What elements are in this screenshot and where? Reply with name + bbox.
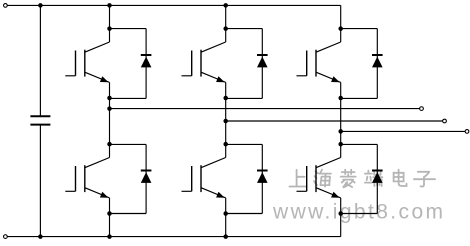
terminal: DC- [4, 235, 8, 239]
capacitor C1 [30, 116, 50, 124]
watermark CJK char 5 (dian) [394, 170, 407, 186]
diode D2 [110, 144, 152, 213]
wire: phase U output [110, 108, 420, 110]
terminal: phase V [443, 119, 447, 123]
svg-text:www.igbt8.com: www.igbt8.com [272, 201, 445, 224]
node: Q1 collector / D top [107, 26, 112, 31]
watermark CJK char 3 (ling) [341, 170, 356, 188]
node: Q4 emitter / D bottom [223, 211, 228, 216]
wire: leg 3 midpoint vertical [340, 82, 342, 157]
node: phase V tap [223, 119, 228, 124]
node: Q4 collector / D top [223, 142, 228, 147]
wire: phase W output [341, 130, 465, 132]
node: DC- at leg 2 [223, 234, 228, 239]
terminal: DC+ [4, 4, 8, 8]
node: phase W tap [338, 129, 343, 134]
IGBT Q5 [297, 42, 341, 82]
node: Q2 collector / D top [107, 142, 112, 147]
node: Q3 collector / D top [223, 26, 228, 31]
node: DC+ at leg 1 [107, 3, 112, 8]
watermark CJK char 1 (shang) [289, 170, 306, 187]
terminal: phase U [420, 107, 424, 111]
terminal: phase W [465, 130, 469, 134]
node: Q1 emitter / D bottom [107, 96, 112, 101]
node: Q2 emitter / D bottom [107, 211, 112, 216]
node: Q5 emitter / D bottom [338, 96, 343, 101]
wire: DC- bottom bus [7, 236, 341, 238]
diode D3 [226, 29, 268, 99]
wire: leg 3 collector drop from DC+ [340, 5, 342, 42]
node: Q6 emitter / D bottom [338, 211, 343, 216]
node: DC- at leg 1 [107, 234, 112, 239]
node: Q3 emitter / D bottom [223, 96, 228, 101]
diode D4 [226, 144, 268, 213]
node: DC+ at capacitor [38, 3, 43, 8]
diode D6 [341, 144, 383, 213]
watermark CJK char 4 (duan) [365, 170, 383, 187]
wire: capacitor branch lower [39, 125, 41, 237]
watermark CJK char 2 (hai) [314, 170, 331, 187]
wire: DC+ top bus [7, 4, 341, 6]
diode D5 [341, 29, 383, 99]
node: Q5 collector / D top [338, 26, 343, 31]
node: phase U tap [107, 106, 112, 111]
wire: capacitor branch upper [39, 5, 41, 116]
node: DC- at capacitor [38, 234, 43, 239]
watermark CJK char 6 (zi) [414, 172, 435, 187]
wire: leg 3 emitter drop to DC- [340, 198, 342, 237]
wire: leg 1 emitter drop to DC- [109, 198, 111, 237]
wire: leg 1 midpoint vertical [109, 82, 111, 157]
IGBT Q2 [65, 158, 109, 198]
IGBT Q6 [297, 158, 341, 198]
wire: leg 2 midpoint vertical [225, 82, 227, 157]
wire: leg 2 collector drop from DC+ [225, 5, 227, 42]
node: Q6 collector / D top [338, 142, 343, 147]
diode D1 [110, 29, 152, 99]
IGBT Q3 [182, 42, 226, 82]
wire: leg 2 emitter drop to DC- [225, 198, 227, 237]
node: DC+ at leg 2 [223, 3, 228, 8]
IGBT Q1 [65, 42, 109, 82]
wire: leg 1 collector drop from DC+ [109, 5, 111, 42]
wire: phase V output [226, 120, 443, 122]
IGBT Q4 [182, 158, 226, 198]
